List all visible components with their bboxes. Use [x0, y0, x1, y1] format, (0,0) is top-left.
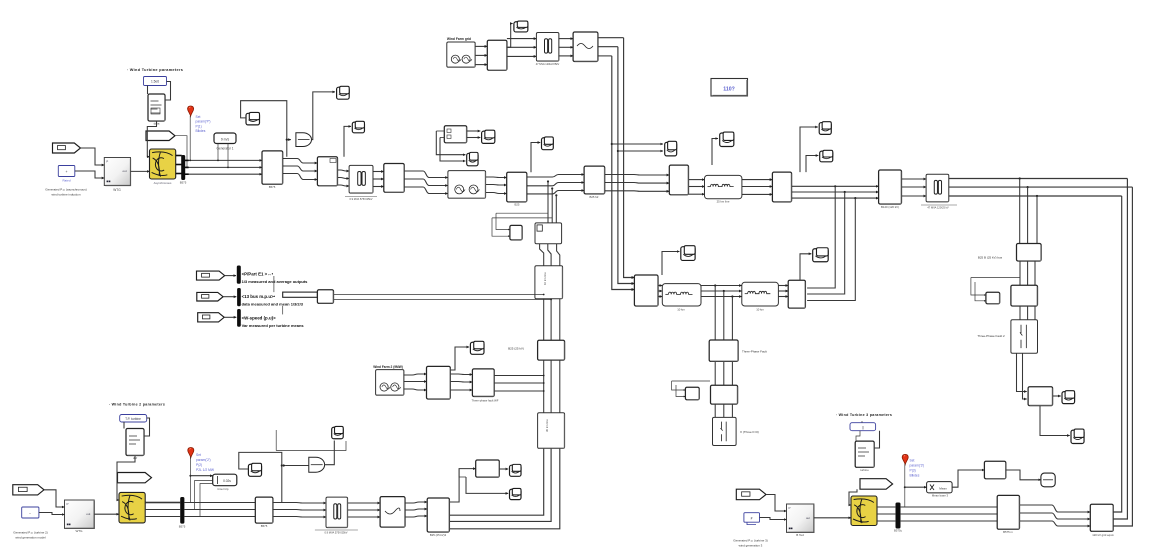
wire far-right riser a	[1113, 196, 1122, 512]
svg-text:Asynchronous: Asynchronous	[154, 181, 172, 185]
wire to scope bus1 b	[618, 150, 663, 152]
gain mean gain 1	[296, 133, 312, 147]
junction	[555, 194, 557, 196]
wire gain2 in	[286, 465, 309, 467]
label	[324, 531, 347, 535]
three-phase line seg4	[373, 178, 384, 180]
block B575 measure 3	[997, 495, 1019, 529]
machine stub b	[176, 164, 182, 166]
svg-text:B575: B575	[180, 181, 187, 185]
wire bl extra v	[275, 430, 277, 451]
wf link a	[404, 389, 427, 390]
block three-phase fault 1	[709, 340, 738, 361]
source block wind farm block	[448, 171, 486, 199]
three-phase line seg4	[373, 186, 384, 188]
three-phase grid b	[507, 46, 537, 48]
wf link a	[404, 381, 427, 383]
wire rloop b	[975, 282, 986, 301]
three-phase grid b	[507, 55, 537, 57]
svg-text:■■: ■■	[106, 180, 110, 184]
three-phase grid c	[559, 46, 573, 48]
wire timer elbow 2	[200, 484, 213, 517]
svg-text:out: out	[86, 512, 90, 516]
wire gain up to scope	[312, 92, 336, 140]
junction	[186, 167, 188, 169]
three-phase line seg12	[902, 186, 927, 188]
wire const1 to pitch	[147, 86, 149, 95]
svg-text:Generated P.u. (turbine 2): Generated P.u. (turbine 2)	[13, 531, 47, 535]
svg-text:0.02s: 0.02s	[223, 479, 231, 483]
wire far-right riser c	[1113, 187, 1132, 526]
fault breaker ground fault	[713, 417, 737, 445]
svg-text:0.9 MVA 575V/25kV: 0.9 MVA 575V/25kV	[324, 531, 347, 535]
junction	[1027, 186, 1029, 188]
wire tap down B25-1	[1019, 179, 1021, 247]
bus stub a	[185, 159, 189, 161]
scope scope m3	[352, 121, 364, 133]
wire scope feeder	[531, 143, 540, 173]
three-phase grid a	[475, 45, 487, 47]
three-phase line seg2	[283, 166, 317, 171]
block feeder block	[584, 166, 605, 194]
wire to scope bus1 a	[612, 143, 663, 145]
label	[515, 203, 520, 207]
tag from tag wind3	[736, 489, 766, 500]
wire fault v3	[731, 297, 733, 341]
label	[127, 68, 184, 72]
label	[881, 205, 899, 209]
svg-text:0.9 MVA 575V/25kV: 0.9 MVA 575V/25kV	[349, 197, 372, 201]
wire tap breaker 1	[547, 182, 549, 223]
wind source block wind1	[214, 133, 236, 144]
wire rchain 1	[1019, 261, 1021, 285]
wire gain2 up	[325, 441, 335, 465]
scope scope pi 2	[813, 248, 828, 262]
machine asynchronous generator 1	[150, 149, 176, 179]
three-phase line seg11	[792, 197, 879, 199]
vertical line block L2	[538, 413, 565, 449]
bbus seg4	[405, 502, 427, 503]
tag goto pitch 3	[860, 479, 893, 490]
wire chain v6	[559, 360, 561, 413]
breaker breaker B1	[535, 223, 562, 244]
wire bk3	[557, 244, 560, 266]
wire legend b	[334, 299, 552, 301]
block timer right	[986, 292, 1000, 304]
brbus seg2	[1020, 513, 1091, 519]
svg-text:■■: ■■	[67, 522, 71, 526]
label	[836, 413, 892, 417]
scope scope pi 1	[681, 246, 695, 261]
label	[927, 206, 949, 210]
rounded block goto small	[1041, 473, 1055, 487]
wire brbus c	[900, 520, 997, 522]
label	[733, 539, 767, 543]
label	[677, 308, 685, 312]
three-phase line seg7	[527, 191, 584, 194]
three-phase line seg6	[486, 193, 507, 194]
svg-text:B575: B575	[179, 525, 186, 529]
label	[536, 62, 560, 66]
machine2 stub b	[145, 510, 181, 512]
svg-text:1.5e6: 1.5e6	[151, 80, 159, 84]
svg-text:out: out	[123, 169, 127, 173]
transformer transformer 120kV	[926, 174, 949, 202]
subsystem WTG 1	[104, 158, 130, 186]
block pitch controller 1	[148, 94, 165, 121]
tag goto pitch 2	[118, 473, 152, 483]
label	[349, 197, 372, 201]
three-phase line seg6	[486, 176, 507, 179]
label	[109, 403, 165, 407]
wire tap breaker 2	[551, 189, 553, 223]
svg-text:P(1): P(1)	[196, 124, 202, 128]
pi-section line line 1 10km	[662, 284, 701, 306]
label	[179, 525, 186, 529]
source block speed2	[22, 507, 39, 518]
svg-text:■■: ■■	[789, 526, 793, 530]
svg-text:WTG: WTG	[113, 188, 121, 192]
wire const3 to pitch	[856, 431, 860, 441]
wire bb s2	[466, 477, 508, 493]
block B575 measure 2	[255, 497, 273, 523]
scope scope bb1	[510, 464, 522, 476]
junction	[543, 375, 545, 377]
wire legend a	[334, 294, 544, 296]
wire to scope bus2	[712, 139, 718, 166]
wire to scope m3	[344, 126, 351, 156]
svg-text:· Wind Turbine 2 parameters: · Wind Turbine 2 parameters	[109, 403, 165, 407]
pi link c	[778, 285, 788, 287]
wire wtg1 to machine	[131, 170, 150, 172]
legend long bar	[283, 292, 318, 297]
pi link c	[778, 296, 788, 298]
label	[932, 494, 949, 498]
marker pin1	[188, 106, 194, 116]
wire bus b1	[185, 166, 262, 168]
bbus seg2	[273, 516, 326, 519]
wire scope b120a	[800, 127, 818, 172]
svg-text:#: #	[751, 517, 753, 521]
wire scope pi1	[662, 252, 679, 276]
tag from tag trip	[197, 271, 225, 280]
wire wind1 to wtg	[81, 148, 105, 165]
machine3 stub a	[877, 506, 896, 508]
bbus seg3	[348, 502, 381, 504]
label	[242, 302, 304, 307]
junction	[904, 486, 906, 488]
marker pin2	[188, 448, 194, 458]
junction	[189, 160, 191, 162]
wire X to measure3	[952, 470, 984, 487]
svg-text:10 km: 10 km	[756, 308, 764, 312]
wire pitch loop 3	[874, 431, 879, 448]
wire legend v2	[282, 306, 284, 315]
three-phase line seg12	[902, 178, 927, 180]
svg-text:B25 B (25 kV) bus: B25 B (25 kV) bus	[978, 256, 1003, 260]
transformer transformer 2	[326, 497, 348, 527]
svg-text:B25: B25	[515, 203, 520, 207]
svg-text:B25 fdr: B25 fdr	[589, 195, 598, 199]
svg-text:WTG: WTG	[76, 529, 84, 533]
svg-text:1/3 measured and average outpu: 1/3 measured and average outputs	[242, 279, 309, 284]
svg-text:Three-Phase Fault: Three-Phase Fault	[742, 350, 767, 354]
wire fault v4	[714, 361, 716, 385]
transformer grid transformer	[536, 33, 559, 62]
wire pin2 to timer	[190, 475, 212, 477]
wire wind blk down2	[227, 144, 229, 168]
three-phase line seg10	[742, 179, 773, 181]
svg-text:Three-phase fault WF: Three-phase fault WF	[471, 398, 498, 402]
scope scope meter2	[467, 152, 478, 165]
svg-text:Blkdes: Blkdes	[196, 129, 206, 133]
display block	[711, 79, 748, 97]
block B25 block	[384, 164, 404, 193]
block wf breaker	[472, 369, 494, 397]
scope scope right 1	[1062, 391, 1075, 404]
three-phase line seg10	[742, 193, 773, 195]
wire wf out 1	[494, 375, 544, 377]
wire bus c1	[185, 173, 262, 175]
wire to gain	[287, 139, 291, 141]
wire bbus b	[184, 509, 255, 511]
wire riser2 c	[612, 56, 635, 290]
tag from tag wind2	[13, 485, 44, 495]
junction	[227, 167, 229, 169]
wire drop pi right 2	[807, 192, 845, 294]
wire scope wf	[450, 347, 469, 370]
wire meter s4	[440, 138, 465, 162]
label	[76, 529, 84, 533]
wire bus right b	[949, 186, 1133, 188]
wire pitch loop 1	[165, 82, 171, 101]
svg-text:Rated: Rated	[62, 179, 70, 183]
machine stub c	[176, 173, 182, 175]
wire fault v5	[723, 361, 725, 385]
label	[242, 279, 309, 284]
pi-section line line 25km	[705, 175, 742, 198]
junction	[854, 197, 856, 199]
svg-text:47 MVA 120/25 kV: 47 MVA 120/25 kV	[927, 206, 949, 210]
label	[216, 147, 233, 151]
svg-text:Wind Farm 2 (9MW): Wind Farm 2 (9MW)	[373, 365, 403, 369]
scope scope bl1	[248, 463, 261, 476]
pi link a	[658, 285, 662, 287]
label	[373, 365, 403, 369]
wire bbus a	[184, 502, 255, 504]
wire drop pi right 3	[807, 198, 855, 300]
svg-text:~: ~	[29, 512, 31, 516]
svg-text:B Ted: B Ted	[796, 533, 804, 537]
svg-text:out: out	[806, 516, 810, 520]
wire pitch loop 2	[144, 418, 150, 436]
svg-text:| |: | |	[862, 426, 865, 430]
svg-text:30 km line: 30 km line	[545, 419, 549, 432]
timer block	[213, 474, 237, 486]
wire pin1 stem	[189, 116, 191, 160]
wire fault v1	[714, 286, 716, 341]
svg-text:wind generation 3: wind generation 3	[739, 544, 763, 548]
label	[15, 536, 46, 540]
wire grid out b	[598, 46, 618, 48]
block meter block 2	[476, 460, 500, 477]
svg-text:B575: B575	[261, 524, 268, 528]
junction	[723, 290, 725, 292]
junction	[281, 464, 283, 466]
label	[62, 179, 70, 183]
block B feeder 2	[669, 165, 688, 195]
machine2 stub redraw	[145, 502, 181, 504]
wire fault v2	[723, 291, 725, 340]
scope scope b120 a	[819, 122, 831, 135]
three-phase line seg2	[283, 159, 317, 164]
svg-text:· Wind Turbine parameters: · Wind Turbine parameters	[127, 68, 184, 72]
junction	[543, 390, 545, 392]
bbus seg2	[273, 509, 326, 512]
machine2 stub a	[145, 502, 181, 504]
junction	[550, 299, 552, 301]
junction	[217, 160, 219, 162]
svg-text:wind turbine induction: wind turbine induction	[51, 193, 80, 197]
wire rchain 7	[1017, 353, 1027, 391]
svg-text:Set: Set	[196, 115, 201, 119]
block B575 measurement	[262, 151, 283, 184]
label	[242, 294, 276, 299]
wire chain to bottom 2	[449, 448, 551, 521]
annotation blue 1	[196, 115, 211, 133]
wire tag2	[223, 296, 236, 298]
wire fault v7	[714, 404, 716, 417]
block B25 right block	[634, 275, 658, 306]
marker pin3	[902, 454, 908, 464]
label	[978, 256, 1003, 260]
block B25 right bus	[1017, 244, 1042, 262]
fault breaker three-phase fault 2	[1011, 320, 1038, 354]
label	[242, 323, 305, 328]
svg-text:Set: Set	[910, 459, 915, 463]
label underline 3	[315, 529, 358, 531]
svg-text:Blkdes: Blkdes	[910, 474, 920, 478]
svg-text:Generated P.u. (turbine 3): Generated P.u. (turbine 3)	[733, 539, 767, 543]
wire rchain 2	[1027, 261, 1029, 285]
three-phase line seg3	[338, 170, 350, 171]
block grid impedance	[573, 32, 598, 62]
wire fault loop a	[672, 381, 710, 390]
junction	[714, 284, 716, 286]
wire wf out 3	[494, 390, 544, 392]
wire tag3	[224, 316, 236, 318]
machine asynchronous generator 3	[851, 496, 877, 526]
three-phase line seg11	[792, 185, 879, 187]
block legend block	[317, 290, 333, 304]
wire brbus b	[900, 513, 997, 515]
wire pin3 to X	[905, 486, 927, 488]
label	[51, 193, 80, 197]
pi link a	[658, 290, 662, 292]
svg-text:Var measured per turbine means: Var measured per turbine means	[242, 323, 305, 328]
svg-text:9 m/s: 9 m/s	[221, 137, 230, 141]
block B120 measure	[772, 172, 791, 202]
wire riser2 b	[618, 47, 635, 284]
svg-text:Generated P.u. (asynchronous): Generated P.u. (asynchronous)	[45, 188, 86, 192]
wire pitch3 to machine	[849, 489, 857, 505]
pi link b	[701, 285, 742, 287]
wire r s1	[1053, 395, 1061, 397]
svg-text:10 km line: 10 km line	[543, 272, 547, 285]
three-phase line seg12	[902, 195, 927, 197]
svg-text:B575c: B575c	[894, 529, 903, 533]
three-phase grid b	[507, 38, 537, 40]
wire chain to bottom 1	[449, 448, 543, 515]
wire meter s1	[467, 130, 481, 132]
junction	[617, 150, 619, 152]
label	[894, 529, 903, 533]
svg-text:P(3): P(3)	[910, 469, 916, 473]
wire r s2	[1040, 406, 1070, 436]
svg-text:110?: 110?	[723, 87, 735, 93]
label	[471, 398, 498, 402]
three-phase grid a	[475, 64, 487, 66]
tag goto pitch 1	[146, 131, 175, 141]
wire pin3 stem	[904, 464, 906, 507]
tag from tag m	[197, 292, 223, 301]
svg-text:P: P	[67, 502, 69, 506]
wire fault v6	[731, 361, 733, 385]
wire chain v3	[559, 299, 561, 341]
svg-text:B120 (120 kV): B120 (120 kV)	[881, 205, 899, 209]
svg-text:B25 (25 kV)2: B25 (25 kV)2	[430, 533, 447, 537]
wire speed2 to wtg	[39, 513, 65, 515]
three-phase line seg7	[527, 183, 584, 186]
wire chain v5	[550, 360, 552, 413]
label	[717, 200, 730, 204]
junction	[286, 139, 288, 141]
bbus seg4	[405, 516, 427, 517]
wire pitch to machine	[147, 121, 156, 157]
source block speed3	[744, 513, 760, 525]
three-phase line seg9	[689, 179, 705, 181]
wire chain v1	[543, 299, 545, 341]
block grid conn block	[1090, 504, 1113, 531]
wire machine2 bus a	[145, 497, 181, 499]
svg-text:25 km line: 25 km line	[717, 200, 730, 204]
svg-text:turbine: turbine	[860, 468, 869, 472]
three-phase line seg11	[792, 191, 879, 193]
pi link a	[658, 296, 662, 298]
block timer breaker	[510, 225, 522, 240]
machine2 stub redraw c	[145, 516, 181, 518]
label	[740, 430, 759, 434]
wire fault loop b	[676, 385, 685, 397]
svg-text:Mean base 3: Mean base 3	[932, 494, 949, 498]
tag from tag wind1	[53, 143, 81, 153]
machine stub a	[176, 155, 182, 157]
three-phase line seg6	[486, 184, 507, 187]
wire const2 to pitch	[123, 422, 125, 429]
svg-text:B25 (25 kV): B25 (25 kV)	[508, 347, 524, 351]
wire wind2 to wtg	[44, 490, 65, 507]
vertical line block L1	[535, 266, 563, 299]
source block wind farm 2 source	[376, 370, 404, 396]
svg-text:<P/Part E1 >↔•: <P/Part E1 >↔•	[242, 272, 274, 277]
wire fault v9	[731, 404, 733, 417]
wire timer elbow 1	[195, 481, 213, 510]
junction	[551, 187, 553, 189]
scope scope right 2	[1071, 429, 1084, 443]
wire meter s3	[436, 131, 465, 155]
block breaker right	[1011, 285, 1038, 306]
wire bus right a	[949, 178, 1128, 180]
